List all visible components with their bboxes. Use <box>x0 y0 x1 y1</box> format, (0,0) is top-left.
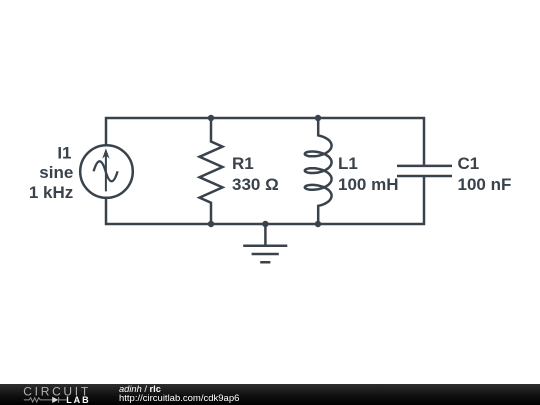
svg-text:100 nF: 100 nF <box>458 175 512 194</box>
svg-text:330 Ω: 330 Ω <box>232 175 279 194</box>
svg-text:I1: I1 <box>57 144 71 163</box>
svg-text:R1: R1 <box>232 154 254 173</box>
svg-text:C1: C1 <box>458 154 480 173</box>
svg-text:L1: L1 <box>338 154 358 173</box>
svg-text:1 kHz: 1 kHz <box>29 183 73 202</box>
svg-text:LAB: LAB <box>66 395 91 405</box>
svg-text:100 mH: 100 mH <box>338 175 398 194</box>
svg-text:sine: sine <box>39 163 73 182</box>
